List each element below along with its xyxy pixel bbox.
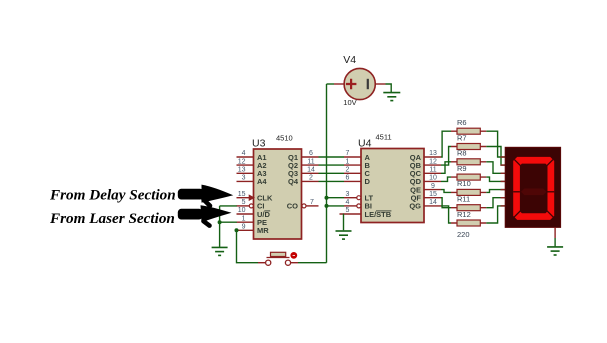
U3 pin A4	[237, 175, 268, 187]
svg-text:10V: 10V	[343, 98, 356, 107]
push button	[258, 252, 298, 265]
wire R7 to display pin b	[486, 147, 505, 166]
U4 pin B	[344, 158, 371, 170]
wire QA to R6	[441, 131, 451, 157]
svg-text:13: 13	[429, 150, 437, 157]
svg-text:MR: MR	[257, 226, 269, 235]
svg-text:R11: R11	[457, 195, 470, 204]
svg-text:2: 2	[346, 167, 350, 174]
svg-text:R6: R6	[457, 118, 467, 127]
svg-text:4: 4	[242, 150, 246, 157]
wire rail to BI	[327, 205, 345, 207]
svg-text:4: 4	[346, 199, 350, 206]
svg-text:R8: R8	[457, 149, 467, 158]
svg-text:R10: R10	[457, 179, 471, 188]
wire V4 right terminal	[375, 84, 391, 93]
svg-text:15: 15	[238, 191, 246, 198]
wire button to rail	[298, 262, 327, 264]
U3 pin CI	[237, 199, 265, 211]
annotation From Laser Section	[49, 205, 232, 227]
U4 pin BI	[344, 199, 372, 211]
segment separation slits	[513, 160, 554, 218]
wire V+ vertical rail	[326, 84, 328, 263]
wire PE tap	[220, 221, 237, 223]
wire QB to R7	[441, 147, 451, 166]
wire QD to R9	[441, 177, 451, 181]
svg-text:A4: A4	[257, 177, 267, 186]
U4 pin QG	[409, 199, 441, 211]
ground near V4	[383, 93, 400, 101]
wire Q4 to D	[319, 180, 345, 182]
U4 pin QA	[410, 150, 441, 162]
ground below LE/STB	[336, 231, 352, 239]
wire Q3 to C	[319, 172, 345, 174]
U4 pin C	[344, 167, 371, 179]
U3 pin MR	[237, 224, 270, 236]
wire R6 to display pin a	[486, 131, 505, 157]
7-segment display	[505, 147, 560, 227]
wire CI tap	[220, 205, 237, 207]
U4 pin QF	[411, 191, 441, 203]
annotation From Delay Section	[49, 185, 233, 206]
wire rail to LT	[327, 197, 345, 199]
junction dot BI	[325, 204, 329, 208]
ground left	[212, 247, 228, 255]
U4 pin LE/STB	[340, 207, 392, 219]
display pin stubs	[501, 157, 506, 206]
svg-text:5: 5	[346, 207, 350, 214]
wire Q1 to A	[319, 156, 345, 158]
wire QE to R10	[441, 190, 451, 193]
wire to left ground	[219, 222, 221, 247]
wire R11 to display pin f	[486, 198, 505, 208]
svg-text:7: 7	[346, 150, 350, 157]
svg-text:R12: R12	[457, 210, 471, 219]
wire V4 left terminal	[327, 83, 345, 85]
wire Q2 to B	[319, 164, 345, 166]
U4 pin D	[344, 175, 371, 187]
svg-text:5: 5	[242, 199, 246, 206]
wire QG to R12	[441, 206, 451, 223]
svg-text:QG: QG	[409, 202, 421, 211]
svg-text:3: 3	[242, 175, 246, 182]
U4 pin LT	[344, 191, 374, 203]
U3 pin A3	[237, 167, 267, 179]
U3 pin Q3	[288, 167, 319, 179]
wire R8 to display pin c	[486, 162, 505, 174]
U3 pin Q4	[288, 175, 319, 187]
junction dot PE	[218, 220, 222, 224]
svg-text:U4: U4	[358, 138, 372, 150]
display bottom pin	[554, 227, 556, 246]
svg-text:2: 2	[309, 175, 313, 182]
svg-text:11: 11	[429, 167, 436, 174]
wire MR down	[237, 230, 259, 262]
U3 pin A2	[237, 158, 267, 170]
svg-text:3: 3	[346, 191, 350, 198]
svg-text:7: 7	[310, 199, 314, 206]
svg-text:14: 14	[307, 167, 315, 174]
svg-text:1: 1	[242, 215, 246, 222]
wire QC to R8	[441, 162, 451, 174]
svg-text:10: 10	[238, 207, 246, 214]
U4 pin A	[344, 150, 371, 162]
U4 pin QD	[410, 175, 441, 187]
resistor R9	[451, 164, 486, 180]
U3 pin Q2	[288, 158, 319, 170]
svg-text:From Delay Section: From Delay Section	[49, 187, 176, 204]
junction dot MR	[235, 228, 239, 232]
svg-text:R7: R7	[457, 133, 467, 142]
svg-text:6: 6	[309, 150, 313, 157]
wire R12 to display pin g	[486, 206, 505, 223]
digit 0 segment ring	[513, 157, 554, 220]
svg-text:U3: U3	[252, 138, 266, 150]
svg-text:10: 10	[429, 175, 437, 182]
resistor R11	[451, 195, 486, 211]
svg-text:D: D	[365, 177, 371, 186]
resistor R6	[451, 118, 486, 134]
svg-text:9: 9	[242, 224, 246, 231]
svg-text:V4: V4	[343, 54, 356, 66]
svg-text:1: 1	[346, 158, 350, 165]
svg-text:9: 9	[431, 183, 435, 190]
U3 pin CLK	[237, 191, 273, 203]
svg-text:15: 15	[429, 191, 437, 198]
ground below display	[547, 247, 563, 255]
U3 pin U/D	[237, 207, 271, 219]
U3 pin CO	[287, 199, 319, 211]
svg-text:12: 12	[238, 158, 246, 165]
svg-text:4510: 4510	[276, 134, 293, 143]
resistor R8	[451, 149, 486, 165]
svg-text:11: 11	[307, 158, 314, 165]
U4 pin QB	[410, 158, 441, 170]
U4 pin QE	[410, 183, 441, 195]
wire R9 to display pin d	[486, 177, 505, 181]
counter U3 body	[252, 134, 302, 240]
svg-text:Q4: Q4	[288, 177, 299, 186]
wire CI-PE vertical	[219, 206, 221, 222]
U3 pin Q1	[288, 150, 319, 162]
svg-text:4511: 4511	[376, 133, 392, 142]
svg-text:From Laser Section: From Laser Section	[49, 210, 175, 227]
decoder U4 body	[358, 133, 424, 223]
resistor R7	[451, 133, 486, 149]
U3 pin PE	[237, 215, 268, 227]
svg-text:12: 12	[429, 158, 437, 165]
power source V4	[343, 54, 375, 107]
wire LE/STB down	[343, 214, 346, 230]
svg-text:14: 14	[429, 199, 437, 206]
wire QF to R11	[441, 198, 451, 208]
U3 pin A1	[237, 150, 267, 162]
wire R10 to display pin e	[486, 190, 505, 193]
svg-text:CO: CO	[287, 202, 298, 211]
segment g (off)	[521, 189, 547, 196]
svg-text:R9: R9	[457, 164, 467, 173]
svg-text:13: 13	[238, 167, 246, 174]
resistor R12	[451, 210, 486, 226]
resistor R10	[451, 179, 486, 195]
U4 pin QC	[410, 167, 441, 179]
svg-text:220: 220	[457, 230, 470, 239]
junction dot LT	[325, 196, 329, 200]
svg-text:6: 6	[346, 175, 350, 182]
